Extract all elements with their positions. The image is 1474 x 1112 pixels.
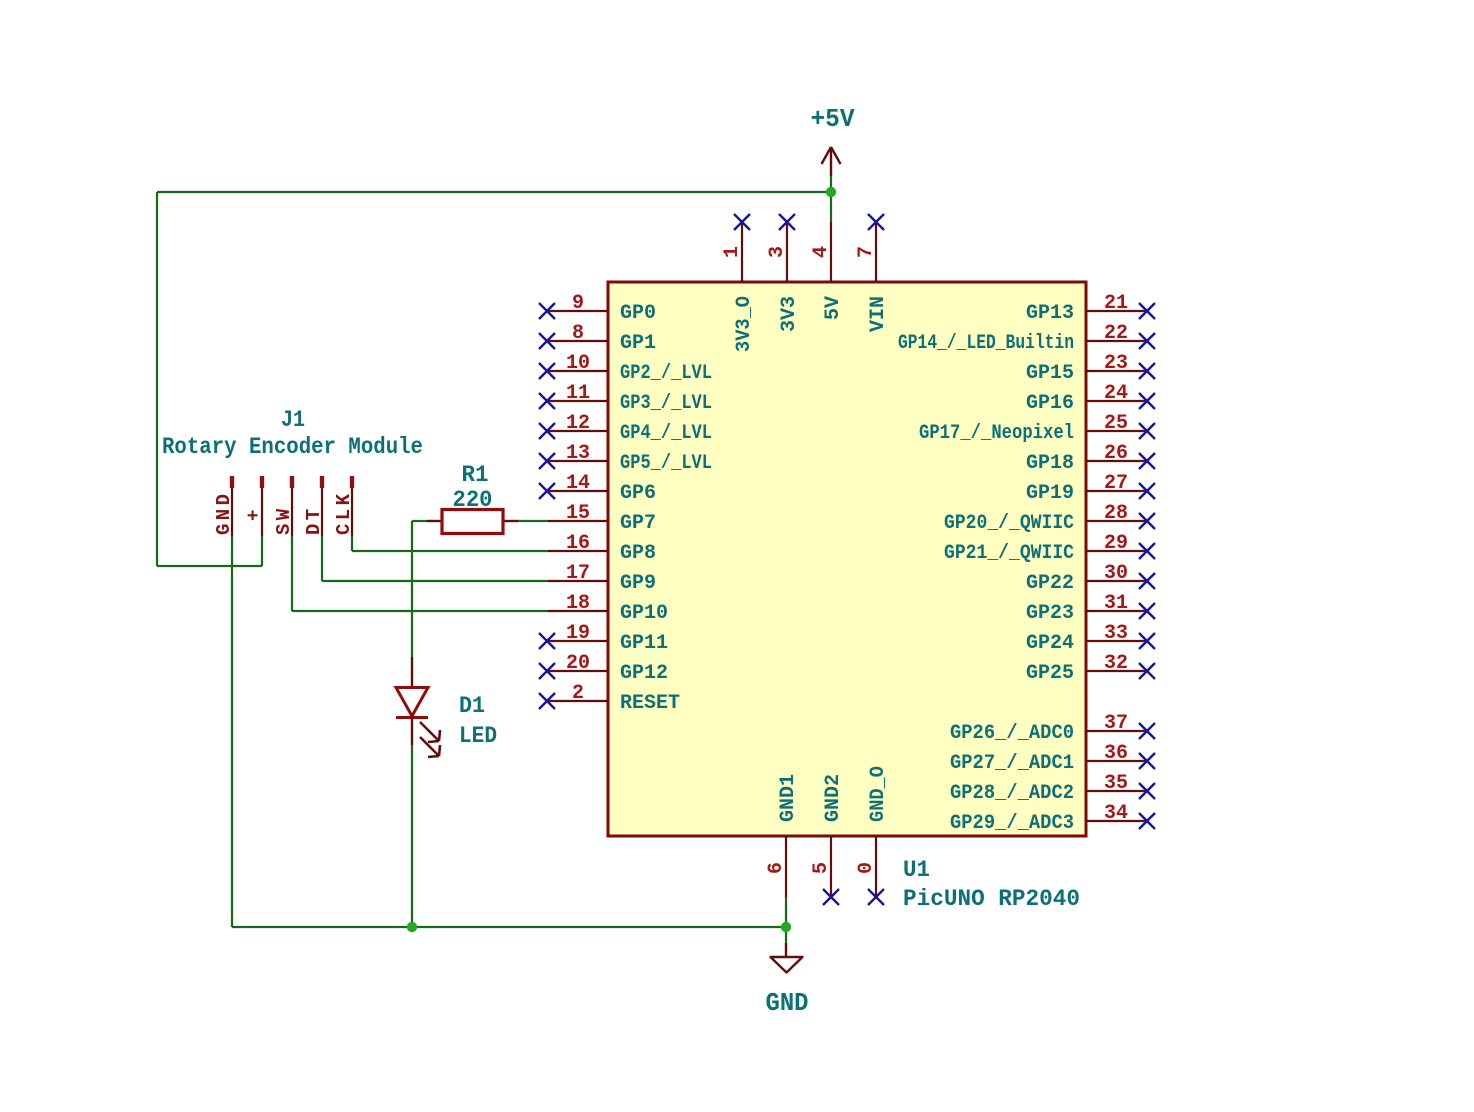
svg-text:GP29_/_ADC3: GP29_/_ADC3 (950, 812, 1074, 835)
svg-text:0: 0 (855, 862, 878, 874)
U1 pin 16 GP8 (left) (548, 532, 656, 565)
wire GND bottom horizontal (232, 926, 786, 928)
svg-text:GP12: GP12 (620, 662, 668, 685)
svg-text:30: 30 (1104, 562, 1128, 585)
U1 pin 25 GP17_/_Neopixel (right) (919, 412, 1155, 445)
svg-text:21: 21 (1104, 292, 1128, 315)
junction pin6 / GND wire (781, 922, 791, 932)
J1 pin + (243, 476, 265, 536)
U1 pin 12 GP4_/_LVL (left) (539, 412, 712, 445)
svg-text:GP25: GP25 (1026, 662, 1074, 685)
svg-text:GP16: GP16 (1026, 392, 1074, 415)
svg-text:GP6: GP6 (620, 482, 656, 505)
svg-text:1: 1 (721, 246, 744, 258)
svg-text:26: 26 (1104, 442, 1128, 465)
junction at +5V pin 4 (826, 187, 836, 197)
svg-text:GP5_/_LVL: GP5_/_LVL (620, 452, 712, 475)
U1 pin 18 GP10 (left) (548, 592, 668, 625)
svg-text:5: 5 (810, 862, 833, 874)
wire J1 SW vertical (291, 536, 293, 611)
svg-text:3V3: 3V3 (778, 296, 801, 332)
U1 pin 4 5V (top) (810, 222, 845, 320)
wire R1 left stub (412, 520, 427, 522)
svg-text:15: 15 (566, 502, 590, 525)
svg-text:GP0: GP0 (620, 302, 656, 325)
svg-text:10: 10 (566, 352, 590, 375)
svg-text:31: 31 (1104, 592, 1128, 615)
svg-text:28: 28 (1104, 502, 1128, 525)
U1 pin 0 GND_O (bottom) (855, 766, 890, 905)
svg-text:GP21_/_QWIIC: GP21_/_QWIIC (944, 542, 1074, 565)
wire LED cathode vertical (411, 745, 413, 927)
svg-text:GP13: GP13 (1026, 302, 1074, 325)
LED D1 (396, 657, 497, 757)
svg-text:R1: R1 (462, 462, 489, 488)
svg-text:CLK: CLK (333, 491, 355, 535)
svg-text:24: 24 (1104, 382, 1128, 405)
U1 pin 1 3V3_O (top) (721, 214, 756, 352)
svg-text:SW: SW (273, 505, 295, 535)
wire J1 CLK vertical (351, 536, 353, 551)
J1 pin GND (213, 476, 235, 536)
U1 pin 15 GP7 (left) (548, 502, 656, 535)
power symbol +5V (811, 104, 855, 176)
wire R1 right to GP7 (518, 520, 548, 522)
svg-text:18: 18 (566, 592, 590, 615)
svg-text:GP8: GP8 (620, 542, 656, 565)
svg-text:GP10: GP10 (620, 602, 668, 625)
U1 pin 8 GP1 (left) (539, 322, 656, 355)
svg-text:27: 27 (1104, 472, 1128, 495)
svg-text:GP14_/_LED_Builtin: GP14_/_LED_Builtin (898, 332, 1074, 355)
svg-text:220: 220 (453, 487, 493, 513)
svg-text:DT: DT (303, 505, 325, 535)
svg-text:GND: GND (213, 491, 235, 535)
U1 pin 32 GP25 (right) (1026, 652, 1155, 685)
svg-text:13: 13 (566, 442, 590, 465)
U1 pin 29 GP21_/_QWIIC (right) (944, 532, 1155, 565)
svg-text:16: 16 (566, 532, 590, 555)
svg-text:GP7: GP7 (620, 512, 656, 535)
svg-text:23: 23 (1104, 352, 1128, 375)
svg-text:J1: J1 (281, 407, 305, 433)
svg-text:+5V: +5V (811, 104, 855, 134)
U1 pin 19 GP11 (left) (539, 622, 668, 655)
wire +5V to J1 plus horizontal (157, 565, 262, 567)
svg-text:GP26_/_ADC0: GP26_/_ADC0 (950, 722, 1074, 745)
svg-text:37: 37 (1104, 712, 1128, 735)
svg-text:33: 33 (1104, 622, 1128, 645)
svg-text:GP9: GP9 (620, 572, 656, 595)
svg-text:35: 35 (1104, 772, 1128, 795)
U1 pin 20 GP12 (left) (539, 652, 668, 685)
J1 pin DT (303, 476, 325, 536)
wire +5V left vertical (156, 192, 158, 566)
svg-text:LED: LED (459, 723, 497, 749)
svg-text:GND_O: GND_O (867, 766, 890, 822)
svg-text:GP3_/_LVL: GP3_/_LVL (620, 392, 712, 415)
wire J1 DT vertical (321, 536, 323, 581)
J1 pin SW (273, 476, 295, 536)
svg-text:Rotary Encoder Module: Rotary Encoder Module (162, 434, 423, 460)
U1 pin 23 GP15 (right) (1026, 352, 1155, 385)
svg-text:GP4_/_LVL: GP4_/_LVL (620, 422, 712, 445)
U1 pin 37 GP26_/_ADC0 (right) (950, 712, 1155, 745)
U1 pin 22 GP14_/_LED_Builtin (right) (898, 322, 1155, 355)
U1 pin 26 GP18 (right) (1026, 442, 1155, 475)
svg-text:7: 7 (855, 246, 878, 258)
wire +5V vertical to pin 4 (830, 176, 832, 222)
U1 pin 7 VIN (top) (855, 214, 890, 332)
svg-text:14: 14 (566, 472, 590, 495)
svg-text:GP17_/_Neopixel: GP17_/_Neopixel (919, 422, 1074, 445)
svg-text:3: 3 (766, 246, 789, 258)
svg-text:GP27_/_ADC1: GP27_/_ADC1 (950, 752, 1074, 775)
svg-text:29: 29 (1104, 532, 1128, 555)
svg-text:GP1: GP1 (620, 332, 656, 355)
svg-text:GP23: GP23 (1026, 602, 1074, 625)
wire SW to GP10 (292, 610, 548, 612)
U1 pin 35 GP28_/_ADC2 (right) (950, 772, 1155, 805)
U1 pin 28 GP20_/_QWIIC (right) (944, 502, 1155, 535)
wire +5V horizontal top (157, 191, 831, 193)
IC U1 body (608, 282, 1086, 836)
U1 pin 6 GND1 (bottom) (765, 774, 800, 897)
svg-text:GND1: GND1 (777, 774, 800, 822)
ground symbol GND (766, 943, 809, 1018)
wire GND pin6 vertical (785, 897, 787, 943)
U1 pin 14 GP6 (left) (539, 472, 656, 505)
svg-text:17: 17 (566, 562, 590, 585)
U1 pin 31 GP23 (right) (1026, 592, 1155, 625)
svg-text:25: 25 (1104, 412, 1128, 435)
svg-text:GND2: GND2 (822, 774, 845, 822)
U1 pin 11 GP3_/_LVL (left) (539, 382, 712, 415)
svg-text:2: 2 (572, 682, 584, 705)
svg-text:6: 6 (765, 862, 788, 874)
svg-text:19: 19 (566, 622, 590, 645)
svg-text:GP2_/_LVL: GP2_/_LVL (620, 362, 712, 385)
svg-text:9: 9 (572, 292, 584, 315)
U1 pin 13 GP5_/_LVL (left) (539, 442, 712, 475)
svg-text:8: 8 (572, 322, 584, 345)
U1 pin 34 GP29_/_ADC3 (right) (950, 802, 1155, 835)
svg-text:U1: U1 (903, 857, 930, 883)
svg-text:22: 22 (1104, 322, 1128, 345)
junction LED / GND wire (407, 922, 417, 932)
svg-text:5V: 5V (822, 296, 845, 320)
svg-text:GP24: GP24 (1026, 632, 1074, 655)
wire CLK to GP8 (352, 550, 548, 552)
svg-text:20: 20 (566, 652, 590, 675)
resistor R1 220 (427, 462, 518, 534)
U1 pin 24 GP16 (right) (1026, 382, 1155, 415)
svg-text:32: 32 (1104, 652, 1128, 675)
U1 pin 3 3V3 (top) (766, 214, 801, 332)
svg-text:GP19: GP19 (1026, 482, 1074, 505)
U1 pin 30 GP22 (right) (1026, 562, 1155, 595)
svg-text:34: 34 (1104, 802, 1128, 825)
svg-text:GP28_/_ADC2: GP28_/_ADC2 (950, 782, 1074, 805)
svg-text:GND: GND (766, 988, 809, 1018)
U1 pin 9 GP0 (left) (539, 292, 656, 325)
svg-text:GP11: GP11 (620, 632, 668, 655)
svg-text:3V3_O: 3V3_O (733, 296, 756, 352)
U1 pin 27 GP19 (right) (1026, 472, 1155, 505)
U1 pin 5 GND2 (bottom) (810, 774, 845, 905)
svg-text:4: 4 (810, 246, 833, 258)
svg-text:12: 12 (566, 412, 590, 435)
svg-text:+: + (243, 506, 265, 521)
svg-text:GP15: GP15 (1026, 362, 1074, 385)
U1 pin 10 GP2_/_LVL (left) (539, 352, 712, 385)
wire J1 plus vertical (261, 536, 263, 566)
U1 pin 2 RESET (left) (539, 682, 680, 715)
svg-text:11: 11 (566, 382, 590, 405)
svg-text:GP18: GP18 (1026, 452, 1074, 475)
wire R1 to LED vertical (411, 521, 413, 657)
J1 pin CLK (333, 476, 355, 536)
U1 pin 36 GP27_/_ADC1 (right) (950, 742, 1155, 775)
U1 pin 21 GP13 (right) (1026, 292, 1155, 325)
svg-text:RESET: RESET (620, 692, 680, 715)
svg-text:PicUNO RP2040: PicUNO RP2040 (903, 886, 1080, 912)
wire DT to GP9 (322, 580, 548, 582)
svg-text:GP22: GP22 (1026, 572, 1074, 595)
svg-text:36: 36 (1104, 742, 1128, 765)
svg-text:VIN: VIN (867, 296, 890, 332)
svg-text:D1: D1 (459, 693, 485, 719)
wire J1 GND vertical (231, 536, 233, 927)
svg-text:GP20_/_QWIIC: GP20_/_QWIIC (944, 512, 1074, 535)
U1 pin 33 GP24 (right) (1026, 622, 1155, 655)
U1 pin 17 GP9 (left) (548, 562, 656, 595)
